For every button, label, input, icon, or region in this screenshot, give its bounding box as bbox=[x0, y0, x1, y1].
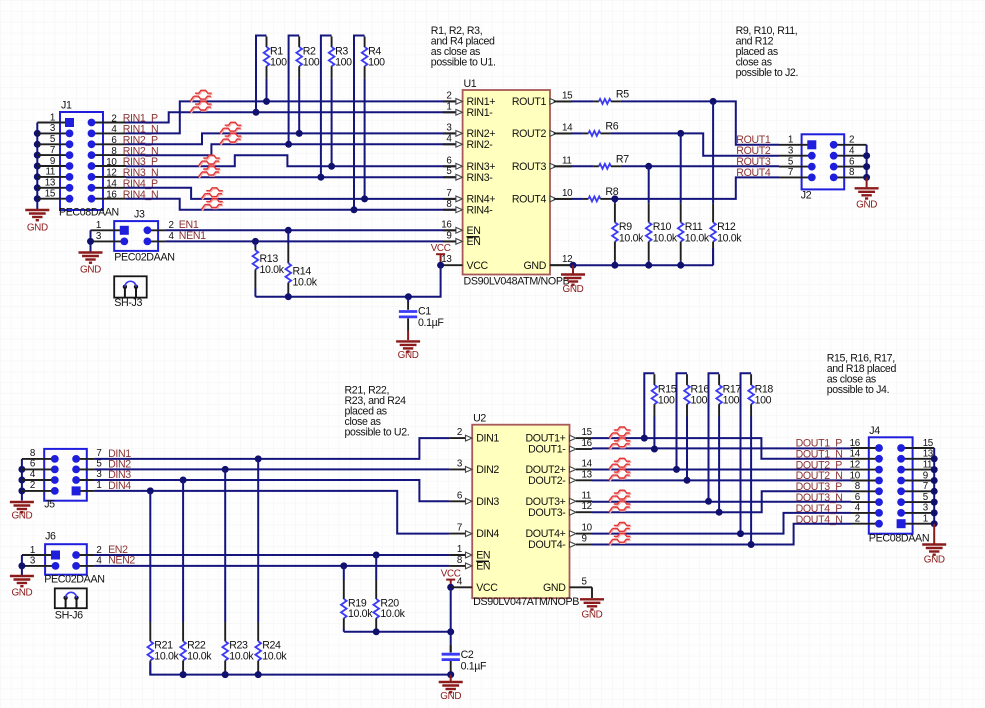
svg-text:DOUT4_N: DOUT4_N bbox=[796, 514, 843, 526]
svg-text:10.0k: 10.0k bbox=[619, 233, 644, 245]
svg-text:100: 100 bbox=[755, 394, 772, 406]
svg-text:7: 7 bbox=[788, 167, 793, 178]
svg-text:GND: GND bbox=[398, 350, 419, 361]
svg-text:10.0k: 10.0k bbox=[154, 650, 179, 662]
jumper shunt SH-J6 bbox=[55, 588, 87, 608]
svg-text:16: 16 bbox=[106, 190, 117, 201]
svg-text:1: 1 bbox=[50, 112, 55, 123]
diff-pair marker RIN2_N bbox=[220, 133, 242, 145]
connector J5 bbox=[44, 449, 87, 501]
power VCC at U2 pin 4 bbox=[446, 580, 455, 588]
resistor R24 10.0k bbox=[255, 455, 262, 462]
U1 pin 6 RIN3+ bbox=[443, 165, 456, 167]
svg-text:5: 5 bbox=[582, 576, 588, 587]
svg-text:10: 10 bbox=[106, 157, 117, 168]
svg-text:4: 4 bbox=[457, 576, 463, 587]
wire ROUT3 net bbox=[621, 165, 779, 167]
wire DOUT1+ net bbox=[592, 438, 851, 459]
U2 pin 14 DOUT2+ bbox=[570, 467, 577, 473]
resistor R1 100 bbox=[256, 36, 267, 113]
resistor R20 10.0k bbox=[373, 552, 380, 559]
resistor R7 bbox=[554, 165, 571, 167]
svg-text:DIN3: DIN3 bbox=[476, 496, 499, 508]
resistor R23 10.0k bbox=[222, 466, 229, 473]
svg-text:14: 14 bbox=[850, 449, 861, 460]
svg-text:10.0k: 10.0k bbox=[293, 277, 318, 289]
connector J1 PEC08DAAN bbox=[60, 112, 103, 210]
svg-text:16: 16 bbox=[441, 219, 452, 230]
svg-text:15: 15 bbox=[562, 90, 573, 101]
svg-text:2: 2 bbox=[111, 113, 116, 124]
svg-text:6: 6 bbox=[30, 459, 36, 470]
U2 pin 6 DIN3 bbox=[449, 500, 465, 502]
wire J2 ground bus bbox=[866, 145, 868, 178]
resistor R3 100 bbox=[321, 36, 332, 178]
svg-text:7: 7 bbox=[96, 448, 101, 459]
U2 pin 2 DIN1 bbox=[449, 437, 465, 439]
svg-text:100: 100 bbox=[368, 56, 385, 68]
U2 pin 10 DOUT4+ bbox=[570, 531, 577, 537]
svg-text:16: 16 bbox=[850, 438, 861, 449]
svg-text:4: 4 bbox=[111, 124, 117, 135]
svg-text:RIN3-: RIN3- bbox=[467, 172, 494, 184]
svg-text:NEN1: NEN1 bbox=[179, 230, 206, 242]
ground GND at C2 bbox=[450, 675, 452, 681]
wire J1 ground bus bbox=[36, 123, 38, 210]
svg-text:DIN4: DIN4 bbox=[476, 528, 499, 540]
ground GND at J1 bbox=[25, 210, 49, 220]
resistor R2 100 bbox=[289, 36, 300, 145]
U1 pin 11 ROUT3 bbox=[550, 163, 557, 169]
svg-text:8: 8 bbox=[855, 481, 861, 492]
wire DOUT2- net bbox=[592, 479, 851, 481]
svg-text:7: 7 bbox=[446, 188, 451, 199]
svg-text:10: 10 bbox=[582, 523, 593, 534]
diff-pair marker RIN1_N bbox=[190, 101, 212, 113]
wire DOUT3+ net bbox=[592, 501, 851, 503]
svg-text:ROUT2: ROUT2 bbox=[512, 128, 547, 140]
svg-text:EN: EN bbox=[467, 236, 481, 248]
svg-text:9: 9 bbox=[50, 156, 55, 167]
diff-pair marker RIN4_P bbox=[201, 188, 223, 200]
svg-text:11: 11 bbox=[562, 155, 571, 166]
svg-text:4: 4 bbox=[849, 146, 855, 157]
svg-text:GND: GND bbox=[11, 510, 32, 521]
svg-text:U1: U1 bbox=[464, 78, 477, 90]
resistor R17 100 bbox=[709, 373, 720, 501]
svg-text:J5: J5 bbox=[44, 499, 55, 511]
ground GND at U1 pin 12 bbox=[572, 265, 574, 274]
svg-text:GND: GND bbox=[563, 284, 584, 295]
svg-text:GND: GND bbox=[924, 554, 945, 565]
diff-pair marker DOUT bbox=[609, 438, 631, 450]
svg-text:GND: GND bbox=[582, 610, 603, 621]
U2 pin 7 DIN4 bbox=[449, 533, 465, 535]
wire NEN2 bbox=[94, 565, 449, 567]
U2 pin 4 VCC bbox=[451, 586, 473, 588]
svg-text:9: 9 bbox=[582, 534, 587, 545]
diff-pair marker DOUT bbox=[609, 501, 631, 513]
wire RIN4_N bbox=[126, 199, 456, 210]
svg-text:6: 6 bbox=[457, 490, 463, 501]
svg-text:6: 6 bbox=[446, 155, 452, 166]
svg-text:J4: J4 bbox=[869, 425, 880, 437]
U2 pin 9 DOUT4- bbox=[570, 542, 577, 548]
svg-text:R5: R5 bbox=[616, 89, 629, 101]
resistor R21 10.0k bbox=[147, 487, 154, 494]
svg-text:ROUT3: ROUT3 bbox=[512, 161, 547, 173]
U1 pin 9 EN bbox=[443, 240, 456, 242]
U1 pin 8 RIN4- bbox=[443, 209, 456, 211]
svg-text:C2: C2 bbox=[461, 649, 474, 661]
svg-text:1: 1 bbox=[96, 220, 101, 231]
svg-text:GND: GND bbox=[11, 588, 32, 599]
svg-text:VCC: VCC bbox=[431, 243, 451, 254]
diff-pair marker DOUT bbox=[609, 523, 631, 535]
wire RIN2_P bbox=[126, 133, 456, 144]
svg-text:0.1µF: 0.1µF bbox=[461, 660, 487, 672]
svg-text:U2: U2 bbox=[473, 413, 486, 425]
svg-text:ROUT1: ROUT1 bbox=[512, 96, 547, 108]
svg-text:GND: GND bbox=[543, 582, 566, 594]
U2 pin 5 GND bbox=[570, 586, 593, 588]
svg-text:PEC08DAAN: PEC08DAAN bbox=[59, 207, 119, 219]
wire J5 ground bus bbox=[21, 459, 23, 501]
svg-text:2: 2 bbox=[855, 514, 860, 525]
diff-pair marker DOUT bbox=[609, 469, 631, 481]
svg-text:GND: GND bbox=[856, 199, 877, 210]
svg-text:14: 14 bbox=[562, 122, 573, 133]
svg-text:1: 1 bbox=[457, 544, 462, 555]
svg-text:10.0k: 10.0k bbox=[348, 608, 373, 620]
resistor R5 bbox=[554, 100, 571, 102]
svg-text:3: 3 bbox=[96, 231, 102, 242]
svg-text:possible to J4.: possible to J4. bbox=[827, 384, 889, 396]
jumper shunt SH-J3 bbox=[114, 276, 147, 297]
svg-text:1: 1 bbox=[788, 135, 793, 146]
diff-pair marker DOUT bbox=[609, 458, 631, 470]
svg-text:1: 1 bbox=[446, 101, 451, 112]
svg-text:8: 8 bbox=[111, 146, 117, 157]
power VCC at U1 pin 13 bbox=[436, 254, 445, 265]
diff-pair marker RIN4_N bbox=[201, 199, 223, 211]
U1 pin 3 RIN2+ bbox=[443, 132, 456, 134]
svg-text:11: 11 bbox=[923, 459, 932, 470]
U1 pin 13 VCC bbox=[441, 264, 463, 266]
svg-text:2: 2 bbox=[457, 427, 462, 438]
U2 pin 1 EN bbox=[449, 554, 465, 556]
svg-text:12: 12 bbox=[850, 459, 860, 470]
svg-text:2: 2 bbox=[30, 480, 35, 491]
connector J4 PEC08DAAN bbox=[869, 437, 913, 533]
svg-text:ROUT4: ROUT4 bbox=[512, 194, 547, 206]
resistor R10 10.0k bbox=[645, 163, 652, 170]
svg-text:J1: J1 bbox=[61, 100, 72, 112]
U2 pin 16 DOUT1- bbox=[570, 446, 577, 452]
resistor R12 10.0k bbox=[710, 98, 717, 105]
U2 pin 3 DIN2 bbox=[449, 468, 465, 470]
U1 pin 10 ROUT4 bbox=[550, 196, 557, 202]
svg-text:15: 15 bbox=[582, 427, 593, 438]
svg-text:5: 5 bbox=[50, 134, 56, 145]
wire VCC to C2 bbox=[450, 587, 452, 632]
svg-text:R6: R6 bbox=[605, 121, 618, 133]
svg-text:R10: R10 bbox=[653, 221, 672, 233]
U1 pin 4 RIN2- bbox=[443, 143, 456, 145]
op-amp U1 DS90LV048ATM/NOPB bbox=[463, 90, 550, 275]
resistor R22 10.0k bbox=[180, 477, 187, 484]
svg-text:100: 100 bbox=[691, 394, 708, 406]
svg-text:2: 2 bbox=[849, 135, 854, 146]
resistor R6 bbox=[554, 132, 571, 134]
wire EN1 bbox=[165, 229, 443, 231]
wire DOUT4- net bbox=[592, 524, 851, 545]
svg-text:100: 100 bbox=[270, 56, 287, 68]
svg-text:13: 13 bbox=[45, 178, 56, 189]
resistor R19 10.0k bbox=[340, 562, 347, 569]
wire EN2 bbox=[94, 554, 449, 556]
wire U1 ground bus bbox=[550, 264, 572, 266]
svg-text:8: 8 bbox=[457, 555, 463, 566]
svg-text:11: 11 bbox=[582, 490, 591, 501]
svg-text:0.1µF: 0.1µF bbox=[418, 317, 444, 329]
svg-text:10.0k: 10.0k bbox=[229, 650, 254, 662]
wire DOUT1- net bbox=[592, 447, 851, 449]
svg-text:10: 10 bbox=[850, 470, 861, 481]
svg-text:100: 100 bbox=[658, 394, 675, 406]
svg-text:100: 100 bbox=[335, 56, 352, 68]
svg-text:16: 16 bbox=[582, 438, 593, 449]
svg-text:R11: R11 bbox=[685, 221, 703, 233]
svg-text:J6: J6 bbox=[45, 531, 56, 543]
svg-text:7: 7 bbox=[923, 481, 928, 492]
U2 pin 13 DOUT2- bbox=[570, 477, 577, 483]
diff-pair marker RIN2_P bbox=[220, 122, 242, 134]
svg-text:4: 4 bbox=[446, 133, 452, 144]
U1 pin 1 RIN1- bbox=[443, 111, 456, 113]
svg-text:12: 12 bbox=[106, 168, 116, 179]
svg-text:4: 4 bbox=[30, 469, 36, 480]
resistor R14 10.0k bbox=[285, 227, 292, 234]
wire ground bus R21-R24 bbox=[150, 663, 450, 675]
svg-text:8: 8 bbox=[30, 448, 36, 459]
svg-text:R7: R7 bbox=[616, 153, 629, 165]
svg-text:VCC: VCC bbox=[467, 260, 489, 272]
svg-text:10.0k: 10.0k bbox=[262, 650, 287, 662]
wire DOUT2+ net bbox=[592, 469, 851, 471]
svg-text:7: 7 bbox=[457, 523, 462, 534]
svg-text:SH-J6: SH-J6 bbox=[55, 610, 83, 622]
svg-text:GND: GND bbox=[440, 691, 461, 702]
svg-text:8: 8 bbox=[849, 167, 855, 178]
wire RIN4_P bbox=[126, 188, 456, 199]
diff-pair marker RIN1_P bbox=[190, 90, 212, 102]
svg-text:1: 1 bbox=[96, 480, 101, 491]
svg-text:RIN1-: RIN1- bbox=[467, 107, 494, 119]
ground GND at C1 bbox=[396, 341, 420, 351]
op-amp U2 DS90LV047ATM/NOPB bbox=[472, 425, 569, 599]
svg-text:R12: R12 bbox=[717, 221, 736, 233]
wire ROUT4 net bbox=[610, 177, 779, 199]
svg-text:5: 5 bbox=[96, 459, 102, 470]
svg-text:DS90LV047ATM/NOPB: DS90LV047ATM/NOPB bbox=[473, 596, 579, 608]
U1 pin 7 RIN4+ bbox=[443, 198, 456, 200]
ground GND at U2 pin 5 bbox=[591, 587, 593, 598]
resistor R16 100 bbox=[677, 373, 688, 469]
svg-text:15: 15 bbox=[923, 438, 934, 449]
svg-text:8: 8 bbox=[446, 199, 452, 210]
diff-pair marker DOUT bbox=[609, 533, 631, 545]
wire R19/R20 bus to VCC bbox=[344, 631, 451, 633]
svg-text:1: 1 bbox=[30, 545, 35, 556]
U1 pin 16 EN bbox=[443, 229, 456, 231]
svg-text:3: 3 bbox=[923, 503, 929, 514]
diff-pair marker DOUT bbox=[609, 490, 631, 502]
wire RIN1_N bbox=[126, 101, 456, 133]
diff-pair marker DOUT bbox=[609, 427, 631, 439]
ground GND at J5 bbox=[10, 502, 34, 512]
connector J6 PEC02DAAN bbox=[45, 544, 87, 575]
svg-text:15: 15 bbox=[45, 189, 56, 200]
svg-text:GND: GND bbox=[80, 265, 101, 276]
svg-text:1: 1 bbox=[923, 514, 928, 525]
connector J3 PEC02DAAN bbox=[114, 221, 158, 251]
svg-text:14: 14 bbox=[106, 179, 117, 190]
svg-text:GND: GND bbox=[524, 260, 547, 272]
wire DIN2 bbox=[94, 468, 449, 470]
wire RIN3_N bbox=[126, 176, 456, 178]
svg-text:5: 5 bbox=[788, 156, 794, 167]
svg-text:DIN1: DIN1 bbox=[476, 433, 499, 445]
U2 pin 8 EN bbox=[449, 565, 465, 567]
U2 pin 15 DOUT1+ bbox=[570, 435, 577, 441]
U1 pin 15 ROUT1 bbox=[550, 99, 557, 105]
U2 pin 11 DOUT3+ bbox=[570, 498, 577, 504]
svg-text:EN: EN bbox=[476, 561, 490, 573]
wire J4 ground bus bbox=[933, 448, 935, 524]
svg-text:10: 10 bbox=[562, 188, 573, 199]
svg-text:2: 2 bbox=[446, 90, 451, 101]
svg-text:DOUT2-: DOUT2- bbox=[528, 475, 566, 487]
svg-text:PEC02DAAN: PEC02DAAN bbox=[44, 573, 104, 585]
svg-text:9: 9 bbox=[923, 470, 928, 481]
svg-text:5: 5 bbox=[923, 492, 929, 503]
svg-text:3: 3 bbox=[446, 122, 452, 133]
svg-text:10.0k: 10.0k bbox=[380, 608, 405, 620]
svg-text:3: 3 bbox=[457, 458, 463, 469]
wire ROUT2 net bbox=[610, 133, 779, 155]
svg-text:3: 3 bbox=[50, 123, 56, 134]
connector J2 bbox=[802, 134, 845, 189]
svg-text:3: 3 bbox=[96, 469, 102, 480]
svg-text:10.0k: 10.0k bbox=[653, 233, 678, 245]
svg-text:DIN2: DIN2 bbox=[476, 464, 499, 476]
svg-text:DOUT3-: DOUT3- bbox=[528, 507, 566, 519]
svg-text:DOUT1-: DOUT1- bbox=[528, 444, 566, 456]
svg-text:10.0k: 10.0k bbox=[717, 233, 742, 245]
svg-text:6: 6 bbox=[849, 156, 855, 167]
svg-text:PEC08DAAN: PEC08DAAN bbox=[869, 533, 929, 545]
svg-text:SH-J3: SH-J3 bbox=[114, 297, 142, 309]
capacitor C1 0.1uF bbox=[407, 297, 409, 302]
resistor R11 10.0k bbox=[677, 130, 684, 137]
wire ROUT1 net bbox=[621, 101, 779, 144]
ground GND at J2 bbox=[866, 177, 868, 187]
svg-text:10.0k: 10.0k bbox=[187, 650, 212, 662]
svg-text:11: 11 bbox=[46, 167, 55, 178]
resistor R15 100 bbox=[644, 373, 654, 438]
U1 pin 14 ROUT2 bbox=[550, 131, 557, 137]
U1 pin 12 GND bbox=[550, 264, 572, 266]
wire RIN1_P bbox=[126, 112, 456, 122]
capacitor C2 0.1uF bbox=[450, 645, 452, 652]
svg-text:J2: J2 bbox=[801, 189, 812, 201]
svg-text:10.0k: 10.0k bbox=[685, 233, 710, 245]
svg-text:3: 3 bbox=[30, 556, 36, 567]
svg-text:possible to U1.: possible to U1. bbox=[431, 57, 496, 69]
wire DOUT4+ net bbox=[592, 513, 851, 534]
svg-text:13: 13 bbox=[582, 469, 593, 480]
svg-text:3: 3 bbox=[788, 146, 794, 157]
wire J6 ground bus bbox=[21, 555, 23, 575]
resistor R18 100 bbox=[741, 373, 752, 533]
wire VCC bus to C1 bbox=[255, 265, 440, 297]
svg-text:possible to U2.: possible to U2. bbox=[345, 427, 410, 439]
wire RIN2_N bbox=[126, 144, 456, 155]
svg-text:possible to J2.: possible to J2. bbox=[736, 67, 798, 79]
diff-pair marker RIN3_P bbox=[198, 155, 220, 167]
svg-text:4: 4 bbox=[855, 503, 861, 514]
svg-text:10.0k: 10.0k bbox=[260, 264, 285, 276]
svg-text:RIN2-: RIN2- bbox=[467, 139, 494, 151]
svg-text:12: 12 bbox=[582, 501, 592, 512]
wire DOUT3- net bbox=[592, 491, 851, 512]
wire J3 ground bus bbox=[90, 230, 92, 251]
ground GND at J6 bbox=[10, 576, 34, 586]
svg-text:14: 14 bbox=[582, 458, 593, 469]
svg-text:9: 9 bbox=[446, 230, 451, 241]
svg-text:100: 100 bbox=[723, 394, 740, 406]
ground GND at J3 bbox=[79, 253, 103, 263]
svg-text:DS90LV048ATM/NOPB: DS90LV048ATM/NOPB bbox=[464, 275, 570, 287]
svg-text:ROUT4: ROUT4 bbox=[736, 167, 771, 179]
svg-text:100: 100 bbox=[303, 56, 320, 68]
resistor R13 10.0k bbox=[252, 238, 259, 245]
resistor R9 10.0k bbox=[611, 195, 618, 202]
svg-text:7: 7 bbox=[50, 145, 55, 156]
svg-text:VCC: VCC bbox=[476, 582, 498, 594]
wire DIN1 bbox=[94, 438, 449, 459]
wire NEN1 bbox=[165, 240, 443, 242]
wire DIN4 bbox=[94, 491, 449, 534]
svg-text:5: 5 bbox=[446, 166, 452, 177]
resistor R4 100 bbox=[354, 36, 365, 210]
U1 pin 5 RIN3- bbox=[443, 176, 456, 178]
ground GND at J4 bbox=[933, 524, 935, 544]
diff-pair marker RIN3_N bbox=[198, 166, 220, 178]
svg-text:C1: C1 bbox=[418, 306, 431, 318]
svg-text:6: 6 bbox=[111, 135, 117, 146]
svg-text:DOUT4-: DOUT4- bbox=[528, 539, 566, 551]
wire DIN3 bbox=[94, 480, 449, 501]
svg-text:PEC02DAAN: PEC02DAAN bbox=[114, 252, 174, 264]
svg-text:J3: J3 bbox=[134, 208, 145, 220]
svg-text:R9: R9 bbox=[619, 221, 632, 233]
svg-text:6: 6 bbox=[855, 492, 861, 503]
U1 pin 2 RIN1+ bbox=[443, 100, 456, 102]
U2 pin 12 DOUT3- bbox=[570, 509, 577, 515]
svg-text:RIN4-: RIN4- bbox=[467, 204, 494, 216]
